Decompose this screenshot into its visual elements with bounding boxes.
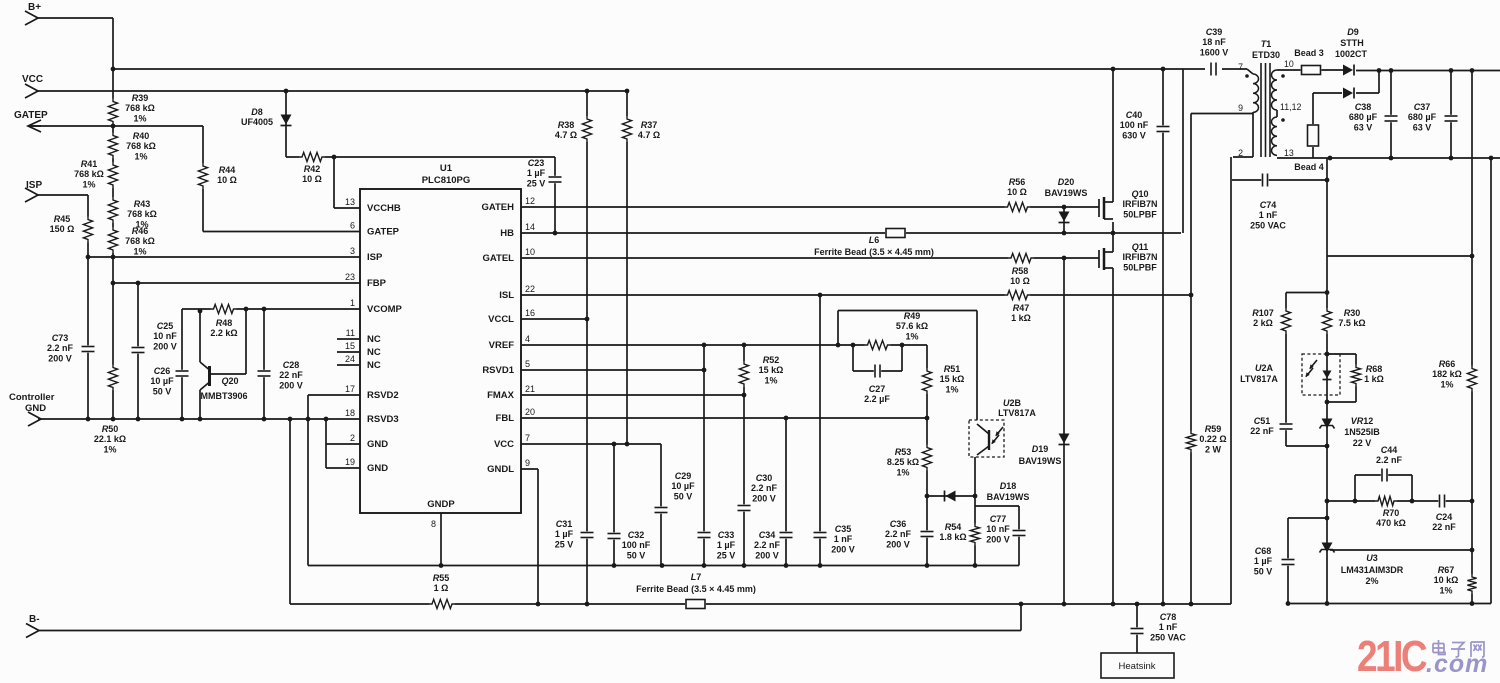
svg-text:1%: 1% [133, 113, 146, 123]
svg-text:17: 17 [345, 384, 355, 394]
svg-text:C40: C40 [1126, 110, 1143, 120]
svg-text:IRFIB7N: IRFIB7N [1122, 199, 1157, 209]
svg-text:R55: R55 [433, 573, 450, 583]
svg-text:R42: R42 [304, 164, 321, 174]
svg-text:C34: C34 [759, 530, 776, 540]
svg-text:C28: C28 [283, 360, 300, 370]
svg-text:1600 V: 1600 V [1200, 47, 1229, 57]
svg-text:1%: 1% [82, 179, 95, 189]
svg-text:4: 4 [525, 334, 530, 344]
svg-text:1%: 1% [1439, 585, 1452, 595]
svg-text:2.2 nF: 2.2 nF [751, 483, 778, 493]
svg-text:25 V: 25 V [555, 539, 574, 549]
svg-text:D19: D19 [1032, 444, 1049, 454]
svg-text:50LPBF: 50LPBF [1123, 262, 1157, 272]
svg-text:200 V: 200 V [886, 539, 910, 549]
svg-text:C68: C68 [1255, 546, 1272, 556]
svg-text:1: 1 [350, 298, 355, 308]
svg-text:R48: R48 [216, 318, 233, 328]
svg-text:1%: 1% [896, 467, 909, 477]
svg-text:C29: C29 [675, 471, 692, 481]
svg-text:VREF: VREF [489, 340, 515, 351]
svg-text:2.2 nF: 2.2 nF [47, 343, 74, 353]
svg-text:7.5 kΩ: 7.5 kΩ [1338, 318, 1365, 328]
svg-text:R67: R67 [1438, 565, 1455, 575]
svg-text:10 µF: 10 µF [671, 481, 695, 491]
svg-text:C30: C30 [756, 473, 773, 483]
svg-text:U3: U3 [1366, 553, 1378, 563]
svg-text:10 Ω: 10 Ω [302, 174, 322, 184]
svg-text:250 VAC: 250 VAC [1250, 220, 1286, 230]
svg-text:1%: 1% [945, 384, 958, 394]
svg-text:2: 2 [1238, 148, 1243, 158]
svg-text:R66: R66 [1439, 359, 1456, 369]
svg-text:1 kΩ: 1 kΩ [1011, 313, 1031, 323]
svg-text:768 kΩ: 768 kΩ [125, 103, 155, 113]
svg-text:GND: GND [367, 439, 388, 450]
svg-text:R43: R43 [134, 199, 151, 209]
svg-text:63 V: 63 V [1413, 122, 1432, 132]
svg-text:3: 3 [350, 246, 355, 256]
svg-text:10 Ω: 10 Ω [217, 175, 237, 185]
svg-text:C33: C33 [718, 530, 735, 540]
svg-text:C36: C36 [890, 519, 907, 529]
svg-text:C24: C24 [1436, 512, 1453, 522]
svg-text:MMBT3906: MMBT3906 [200, 391, 247, 401]
svg-text:2%: 2% [1365, 576, 1378, 586]
svg-text:VCOMP: VCOMP [367, 304, 403, 315]
svg-text:BAV19WS: BAV19WS [1045, 188, 1088, 198]
svg-text:R68: R68 [1366, 364, 1383, 374]
svg-text:15: 15 [345, 341, 355, 351]
svg-text:768 kΩ: 768 kΩ [74, 169, 104, 179]
svg-text:LTV817A: LTV817A [1240, 374, 1278, 384]
svg-text:D8: D8 [251, 107, 263, 117]
svg-text:10: 10 [525, 247, 535, 257]
svg-text:22 nF: 22 nF [1250, 426, 1274, 436]
svg-text:Q20: Q20 [221, 376, 238, 386]
svg-text:R50: R50 [102, 424, 119, 434]
svg-text:R52: R52 [763, 355, 780, 365]
svg-text:20: 20 [525, 407, 535, 417]
svg-text:R49: R49 [904, 311, 921, 321]
svg-text:Q11: Q11 [1132, 242, 1149, 252]
svg-text:FMAX: FMAX [487, 390, 515, 401]
svg-text:50 V: 50 V [153, 386, 172, 396]
svg-text:15 kΩ: 15 kΩ [759, 365, 784, 375]
svg-text:R47: R47 [1013, 303, 1030, 313]
svg-text:12: 12 [525, 196, 535, 206]
svg-text:22 nF: 22 nF [1432, 522, 1456, 532]
svg-text:1%: 1% [103, 444, 116, 454]
svg-text:21IC: 21IC [1357, 631, 1427, 681]
svg-text:Controller: Controller [9, 392, 55, 403]
svg-text:200 V: 200 V [986, 534, 1010, 544]
svg-text:24: 24 [345, 354, 355, 364]
svg-text:2.2 nF: 2.2 nF [1376, 455, 1403, 465]
svg-text:FBL: FBL [496, 413, 515, 424]
svg-text:50 V: 50 V [1254, 566, 1273, 576]
svg-text:100 nF: 100 nF [1120, 120, 1149, 130]
svg-text:GND: GND [25, 403, 46, 414]
svg-text:22 nF: 22 nF [279, 370, 303, 380]
svg-text:GNDL: GNDL [487, 464, 514, 475]
svg-text:13: 13 [345, 197, 355, 207]
svg-text:7: 7 [525, 433, 530, 443]
svg-text:50LPBF: 50LPBF [1123, 209, 1157, 219]
svg-text:VCC: VCC [494, 439, 514, 450]
svg-text:1 µF: 1 µF [717, 540, 736, 550]
svg-text:1 nF: 1 nF [834, 534, 853, 544]
svg-text:2.2 nF: 2.2 nF [885, 529, 912, 539]
svg-text:1 nF: 1 nF [1159, 622, 1178, 632]
svg-text:150 Ω: 150 Ω [50, 224, 75, 234]
svg-text:1%: 1% [764, 375, 777, 385]
svg-text:11,12: 11,12 [1280, 102, 1301, 112]
svg-text:HB: HB [500, 228, 514, 239]
svg-text:R56: R56 [1009, 177, 1026, 187]
svg-text:4.7 Ω: 4.7 Ω [638, 130, 660, 140]
svg-text:1 kΩ: 1 kΩ [1364, 374, 1384, 384]
svg-text:1 µF: 1 µF [1254, 556, 1273, 566]
svg-text:8: 8 [431, 519, 436, 529]
svg-text:1 µF: 1 µF [527, 168, 546, 178]
svg-text:NC: NC [367, 360, 381, 371]
svg-text:680 µF: 680 µF [1349, 112, 1378, 122]
svg-text:L6: L6 [869, 235, 880, 245]
svg-text:LM431AIM3DR: LM431AIM3DR [1341, 565, 1404, 575]
svg-text:1002CT: 1002CT [1335, 49, 1368, 59]
svg-text:R58: R58 [1012, 266, 1029, 276]
svg-text:RSVD2: RSVD2 [367, 390, 399, 401]
svg-text:1%: 1% [905, 331, 918, 341]
svg-text:1%: 1% [1440, 379, 1453, 389]
svg-text:1%: 1% [134, 151, 147, 161]
svg-text:C51: C51 [1254, 416, 1271, 426]
svg-text:R37: R37 [641, 120, 658, 130]
svg-text:4.7 Ω: 4.7 Ω [555, 130, 577, 140]
svg-text:2: 2 [350, 433, 355, 443]
svg-text:RSVD1: RSVD1 [482, 365, 514, 376]
svg-text:LTV817A: LTV817A [998, 408, 1036, 418]
svg-text:19: 19 [345, 457, 355, 467]
svg-text:B+: B+ [28, 2, 41, 13]
svg-text:R45: R45 [54, 214, 71, 224]
svg-text:7: 7 [1238, 62, 1243, 72]
svg-text:VCCHB: VCCHB [367, 203, 401, 214]
svg-text:2 W: 2 W [1205, 444, 1222, 454]
svg-text:C37: C37 [1414, 102, 1431, 112]
svg-text:R53: R53 [895, 447, 912, 457]
svg-text:1 nF: 1 nF [1259, 210, 1278, 220]
svg-text:1 Ω: 1 Ω [434, 583, 449, 593]
svg-text:ETD30: ETD30 [1252, 50, 1280, 60]
svg-text:ISP: ISP [367, 252, 383, 263]
svg-text:C39: C39 [1206, 27, 1223, 37]
svg-text:R46: R46 [132, 226, 149, 236]
svg-text:57.6 kΩ: 57.6 kΩ [896, 321, 928, 331]
svg-text:200 V: 200 V [48, 353, 72, 363]
svg-text:R51: R51 [944, 364, 961, 374]
svg-text:D18: D18 [1000, 481, 1017, 491]
svg-text:C31: C31 [556, 519, 573, 529]
svg-text:C78: C78 [1160, 612, 1177, 622]
svg-text:R38: R38 [558, 120, 575, 130]
svg-text:Ferrite Bead (3.5 × 4.45 mm): Ferrite Bead (3.5 × 4.45 mm) [636, 584, 756, 594]
svg-text:2 kΩ: 2 kΩ [1253, 318, 1273, 328]
svg-text:IRFIB7N: IRFIB7N [1122, 252, 1157, 262]
svg-text:470 kΩ: 470 kΩ [1376, 518, 1406, 528]
svg-text:BAV19WS: BAV19WS [987, 492, 1030, 502]
svg-text:18: 18 [345, 408, 355, 418]
svg-text:768 kΩ: 768 kΩ [126, 141, 156, 151]
svg-text:R59: R59 [1205, 424, 1222, 434]
svg-text:Ferrite Bead (3.5 × 4.45 mm): Ferrite Bead (3.5 × 4.45 mm) [814, 247, 934, 257]
svg-text:C74: C74 [1260, 200, 1277, 210]
svg-text:RSVD3: RSVD3 [367, 414, 399, 425]
svg-text:R30: R30 [1344, 308, 1361, 318]
svg-text:250 VAC: 250 VAC [1150, 632, 1186, 642]
svg-text:2.2 µF: 2.2 µF [864, 394, 890, 404]
svg-text:9: 9 [1238, 103, 1243, 113]
svg-text:R70: R70 [1383, 508, 1400, 518]
svg-text:8.25 kΩ: 8.25 kΩ [887, 457, 919, 467]
svg-text:2.2 kΩ: 2.2 kΩ [210, 328, 237, 338]
svg-text:GATEP: GATEP [14, 110, 48, 121]
svg-text:UF4005: UF4005 [241, 117, 273, 127]
svg-text:10 nF: 10 nF [986, 524, 1010, 534]
svg-text:680 µF: 680 µF [1408, 112, 1437, 122]
svg-text:10 nF: 10 nF [153, 331, 177, 341]
svg-text:25 V: 25 V [527, 178, 546, 188]
svg-text:10: 10 [1284, 59, 1294, 69]
svg-text:18 nF: 18 nF [1202, 37, 1226, 47]
svg-text:23: 23 [345, 272, 355, 282]
svg-text:63 V: 63 V [1354, 122, 1373, 132]
svg-text:C44: C44 [1381, 445, 1398, 455]
svg-text:C23: C23 [528, 158, 545, 168]
svg-text:C38: C38 [1355, 102, 1372, 112]
svg-text:L7: L7 [691, 572, 702, 582]
svg-text:C27: C27 [869, 384, 886, 394]
svg-text:R39: R39 [132, 93, 149, 103]
svg-text:16: 16 [525, 308, 535, 318]
svg-text:T1: T1 [1261, 39, 1272, 49]
svg-text:768 kΩ: 768 kΩ [125, 236, 155, 246]
svg-text:VCC: VCC [22, 74, 43, 85]
svg-text:21: 21 [525, 384, 535, 394]
svg-text:R41: R41 [81, 159, 98, 169]
svg-text:B-: B- [29, 614, 40, 625]
svg-text:0.22 Ω: 0.22 Ω [1199, 434, 1226, 444]
svg-text:768 kΩ: 768 kΩ [127, 209, 157, 219]
svg-text:R44: R44 [219, 165, 236, 175]
svg-text:200 V: 200 V [755, 550, 779, 560]
svg-text:GND: GND [367, 463, 388, 474]
svg-text:U2A: U2A [1255, 363, 1274, 373]
svg-text:BAV19WS: BAV19WS [1019, 456, 1062, 466]
svg-text:STTH: STTH [1340, 38, 1364, 48]
svg-text:200 V: 200 V [831, 544, 855, 554]
svg-text:1N525IB: 1N525IB [1344, 427, 1380, 437]
svg-text:PLC810PG: PLC810PG [422, 175, 471, 186]
svg-text:R54: R54 [945, 522, 962, 532]
svg-text:Bead 3: Bead 3 [1294, 48, 1324, 58]
svg-text:22: 22 [525, 284, 535, 294]
svg-text:VR12: VR12 [1351, 416, 1374, 426]
svg-text:U2B: U2B [1003, 398, 1022, 408]
svg-text:R40: R40 [133, 131, 150, 141]
svg-text:14: 14 [525, 222, 535, 232]
svg-text:200 V: 200 V [752, 493, 776, 503]
svg-text:R107: R107 [1252, 308, 1274, 318]
svg-text:11: 11 [346, 328, 355, 338]
svg-text:GATEH: GATEH [481, 202, 514, 213]
svg-text:ISL: ISL [499, 290, 514, 301]
svg-text:630 V: 630 V [1122, 130, 1146, 140]
svg-text:50 V: 50 V [674, 491, 693, 501]
svg-text:22.1 kΩ: 22.1 kΩ [94, 434, 126, 444]
svg-text:GATEL: GATEL [483, 253, 515, 264]
svg-text:NC: NC [367, 334, 381, 345]
svg-text:Heatsink: Heatsink [1119, 661, 1156, 672]
svg-text:15 kΩ: 15 kΩ [940, 374, 965, 384]
svg-text:VCCL: VCCL [488, 314, 514, 325]
svg-text:13: 13 [1284, 148, 1294, 158]
svg-text:5: 5 [525, 359, 530, 369]
svg-text:C25: C25 [157, 321, 174, 331]
svg-text:NC: NC [367, 347, 381, 358]
svg-text:GATEP: GATEP [367, 227, 400, 238]
svg-text:D20: D20 [1058, 177, 1075, 187]
svg-text:.com: .com [1426, 650, 1488, 678]
svg-text:10 µF: 10 µF [150, 376, 174, 386]
svg-text:2.2 nF: 2.2 nF [754, 540, 781, 550]
svg-text:25 V: 25 V [717, 550, 736, 560]
svg-text:200 V: 200 V [279, 380, 303, 390]
svg-text:D9: D9 [1347, 27, 1359, 37]
svg-text:10 kΩ: 10 kΩ [1434, 575, 1459, 585]
svg-text:FBP: FBP [367, 278, 387, 289]
svg-text:10 Ω: 10 Ω [1007, 187, 1027, 197]
svg-text:10 Ω: 10 Ω [1010, 276, 1030, 286]
svg-text:C26: C26 [154, 366, 171, 376]
svg-text:U1: U1 [440, 163, 453, 174]
svg-text:182 kΩ: 182 kΩ [1432, 369, 1462, 379]
svg-text:ISP: ISP [26, 180, 42, 191]
svg-text:200 V: 200 V [153, 341, 177, 351]
svg-text:1%: 1% [133, 246, 146, 256]
svg-text:C32: C32 [628, 530, 645, 540]
svg-text:C73: C73 [52, 333, 69, 343]
svg-text:C77: C77 [990, 514, 1007, 524]
svg-text:Q10: Q10 [1131, 189, 1148, 199]
svg-text:1.8 kΩ: 1.8 kΩ [939, 532, 966, 542]
svg-text:1 µF: 1 µF [555, 529, 574, 539]
svg-text:GNDP: GNDP [427, 499, 455, 510]
svg-text:6: 6 [350, 221, 355, 231]
svg-text:22 V: 22 V [1353, 438, 1372, 448]
svg-text:Bead 4: Bead 4 [1294, 162, 1324, 172]
svg-text:50 V: 50 V [627, 550, 646, 560]
svg-text:9: 9 [525, 458, 530, 468]
svg-text:C35: C35 [835, 524, 852, 534]
svg-text:100 nF: 100 nF [622, 540, 651, 550]
